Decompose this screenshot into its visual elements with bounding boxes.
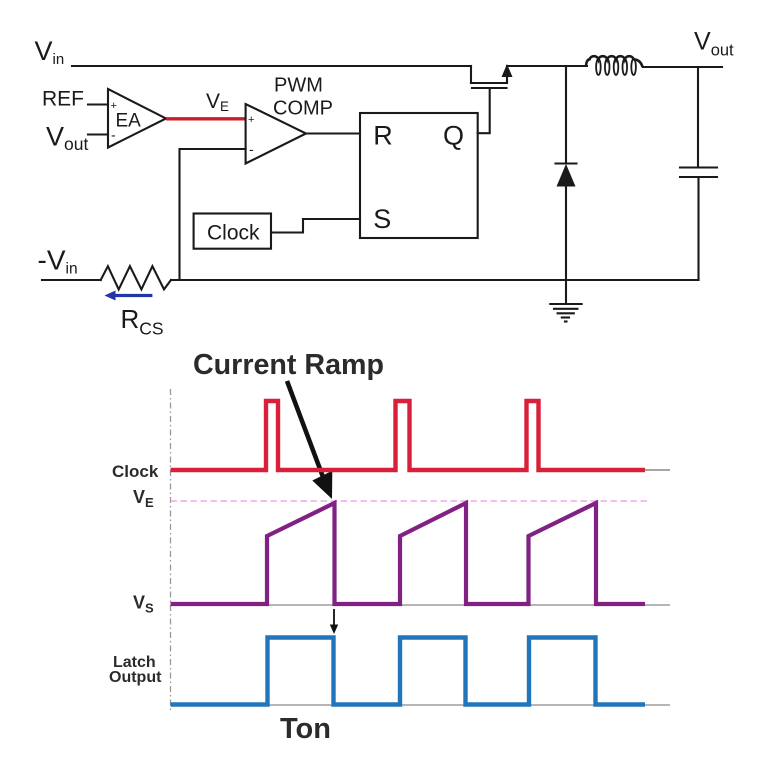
inductor L1 (586, 56, 643, 75)
small arrow (ramp fall to latch) (330, 609, 338, 634)
svg-text:S: S (373, 204, 391, 234)
capacitor C1 (680, 67, 717, 280)
clock waveform baseline extension (gray) (645, 469, 670, 471)
svg-text:Clock: Clock (207, 221, 260, 244)
ground (550, 280, 581, 322)
current sense arrow (blue) (105, 291, 153, 301)
svg-text:-: - (249, 141, 254, 157)
resistor RCS (101, 266, 171, 289)
wire VE (red, EA output to comparator) (166, 117, 246, 120)
svg-text:Current Ramp: Current Ramp (193, 349, 384, 381)
latch baseline (gray) (171, 704, 671, 706)
current ramp waveform (purple) (171, 503, 646, 604)
svg-text:Ton: Ton (280, 713, 331, 745)
wire current feedback to comparator (180, 149, 246, 280)
clock waveform (red) (171, 401, 646, 470)
op-amp U2 PWM comparator (246, 104, 306, 164)
ramp baseline (gray) (171, 604, 671, 606)
svg-text:Output: Output (109, 669, 162, 686)
diode D1 (556, 66, 577, 280)
waveform time axis (dashed) (170, 389, 172, 710)
svg-text:Q: Q (443, 121, 464, 151)
wire comparator output to R (306, 132, 360, 134)
wire ground rail (bottom) (171, 279, 699, 281)
wire REF input (88, 103, 108, 105)
wire -Vin lead (42, 279, 101, 281)
wire Vin top rail (72, 65, 471, 67)
wire inductor to output (643, 66, 722, 68)
latch output waveform (blue) (171, 638, 646, 705)
svg-text:R: R (373, 120, 393, 150)
latch U1 (SR latch box) (360, 113, 478, 238)
clock box (194, 214, 271, 249)
wire clock to S input (271, 219, 360, 233)
svg-text:EA: EA (116, 111, 142, 132)
wire gate from Q output (478, 88, 490, 133)
op-amp EA (error amplifier) (108, 89, 166, 148)
svg-text:Clock: Clock (112, 462, 159, 481)
wire Vout feedback input (88, 133, 108, 135)
svg-text:+: + (248, 114, 254, 126)
annotation arrow (Current Ramp to VE peak) (287, 381, 332, 499)
svg-text:PWM: PWM (274, 75, 323, 97)
transistor Q1 (PMOS switch) (471, 64, 513, 88)
VE level dashed line (pink) (171, 500, 650, 502)
svg-text:REF: REF (42, 88, 84, 111)
svg-text:COMP: COMP (273, 98, 333, 120)
wire switch node (507, 65, 587, 67)
